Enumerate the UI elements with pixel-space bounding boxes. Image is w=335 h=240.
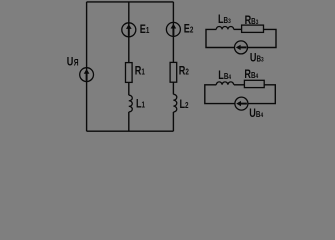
inductor L1 xyxy=(129,95,132,112)
source E2 circle and arrow xyxy=(166,22,180,36)
svg-text:R2: R2 xyxy=(179,65,189,79)
label LB4 xyxy=(218,69,232,83)
label R1 xyxy=(135,64,145,78)
svg-text:UЯ: UЯ xyxy=(67,55,79,69)
loop1 wire top middle (between coil and resistor) xyxy=(234,28,242,30)
source UB3 circle and arrow xyxy=(235,41,248,54)
svg-text:E2: E2 xyxy=(184,22,194,36)
svg-text:R1: R1 xyxy=(135,64,145,78)
loop2 wire top middle (between coil and resistor) xyxy=(234,84,245,86)
source UB4 circle and arrow xyxy=(235,97,248,110)
resistor R2 xyxy=(170,62,177,82)
inductor LB4 xyxy=(216,82,233,85)
loop2 wire left side xyxy=(205,85,235,104)
label RB4 xyxy=(244,68,259,82)
svg-text:RB4: RB4 xyxy=(244,68,259,82)
label E1 xyxy=(140,23,150,37)
loop1 wire right side xyxy=(247,29,276,47)
resistor RB3 xyxy=(242,25,264,32)
svg-text:UB3: UB3 xyxy=(250,51,264,65)
loop2 wire right side xyxy=(248,85,275,104)
source E1 circle and arrow xyxy=(122,23,136,37)
label L1 xyxy=(136,98,145,112)
svg-text:L2: L2 xyxy=(180,98,189,112)
resistor R1 xyxy=(126,63,133,83)
svg-text:L1: L1 xyxy=(136,98,145,112)
label RB3 xyxy=(245,14,259,28)
wire middle branch upper xyxy=(128,2,130,63)
wire left branch xyxy=(86,2,88,131)
label Uя xyxy=(67,55,79,69)
inductor L2 xyxy=(173,94,176,112)
svg-text:RB3: RB3 xyxy=(245,14,259,28)
label UB3 xyxy=(250,51,264,65)
wire middle branch lower xyxy=(128,112,130,131)
source Uя circle and arrow xyxy=(80,68,94,82)
wire right branch upper xyxy=(172,2,174,63)
svg-text:E1: E1 xyxy=(140,23,150,37)
label R2 xyxy=(179,65,189,79)
label LB3 xyxy=(218,13,231,27)
wire middle branch between R1 and L1 xyxy=(128,82,130,95)
wire right branch between R2 and L2 xyxy=(172,82,174,94)
loop1 wire left side xyxy=(206,29,235,47)
wire right branch lower xyxy=(172,112,174,131)
label E2 xyxy=(184,22,194,36)
wire bottom bus xyxy=(87,130,174,132)
inductor LB3 xyxy=(216,27,233,30)
wire top bus xyxy=(87,1,174,3)
resistor RB4 xyxy=(244,80,264,87)
svg-text:UB4: UB4 xyxy=(249,107,264,121)
label UB4 xyxy=(249,107,264,121)
svg-text:LB4: LB4 xyxy=(218,69,232,83)
svg-text:LB3: LB3 xyxy=(218,13,231,27)
label L2 xyxy=(180,98,189,112)
